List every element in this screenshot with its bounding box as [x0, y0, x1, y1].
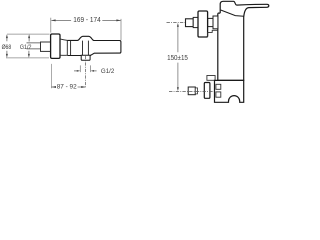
Ø68 down arrow — [6, 51, 8, 55]
svg-text:87 - 92: 87 - 92 — [57, 84, 77, 91]
G1/2 up arrow — [28, 38, 30, 42]
shower outlet boss — [81, 55, 90, 60]
outlet centerline (dash-dot) — [84, 56, 86, 87]
cartridge section lines — [83, 41, 89, 56]
dimension 169-174 left arrow — [51, 19, 55, 21]
bottom bracket — [207, 76, 215, 81]
dimension 169-174 extension line right — [120, 19, 122, 40]
ring lines — [67, 40, 70, 55]
dimension 87-92 line left + arrow — [51, 86, 56, 88]
outlet extension ticks — [80, 65, 90, 72]
bottom centerline (dash-dot) — [169, 90, 214, 92]
svg-text:G1/2: G1/2 — [101, 68, 115, 75]
top supply centerline (dash-dot) — [167, 22, 204, 24]
dimension 169-174 right arrow — [116, 19, 120, 21]
lever cap — [218, 1, 237, 13]
column body — [218, 13, 244, 80]
top mounting bracket steps — [208, 30, 218, 37]
shoulder between escutcheon and body — [60, 39, 67, 55]
bottom escutcheon — [204, 83, 210, 99]
dimension 87-92 extension line — [50, 64, 52, 88]
union nut — [41, 42, 51, 51]
nut behind escutcheon — [208, 18, 213, 26]
lever handle — [237, 4, 269, 16]
Ø68 up arrow — [6, 38, 8, 42]
svg-text:Ø68: Ø68 — [2, 44, 12, 51]
bottom union nut — [188, 87, 195, 95]
svg-text:169 - 174: 169 - 174 — [73, 17, 100, 24]
supply pipe nipple — [27, 43, 41, 49]
lever cap underside — [221, 10, 244, 16]
svg-text:G1/2: G1/2 — [20, 44, 32, 51]
bottom union flange — [195, 88, 197, 94]
mixer body and spout outline — [67, 36, 121, 55]
dimension 169-174 line — [51, 19, 120, 21]
top union nut — [186, 19, 194, 27]
dimension 150±15 line upper + arrow — [177, 26, 179, 52]
dimension 87-92 line right + arrow — [78, 86, 86, 88]
outlet G1/2 dimension arrows — [74, 70, 78, 72]
escutcheon (side) — [51, 34, 60, 58]
dimension 169-174 extension line left — [50, 18, 52, 33]
svg-text:150±15: 150±15 — [167, 55, 188, 62]
Ø68 bottom extension line — [6, 57, 49, 59]
spacer block — [213, 16, 218, 29]
top washer piece — [193, 17, 198, 27]
Ø68 top extension line — [7, 33, 50, 35]
top escutcheon — [198, 11, 208, 37]
bottom spout block with aerator notch — [215, 80, 244, 102]
recess detail rects — [216, 84, 221, 89]
G1/2 down arrow — [28, 51, 30, 55]
dimension 150±15 line lower + arrow — [177, 63, 179, 88]
